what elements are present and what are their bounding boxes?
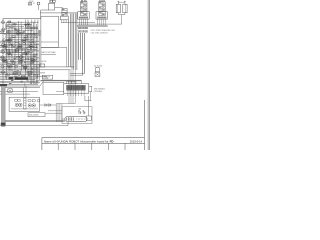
resistor R16 bbox=[13, 51, 16, 53]
transistor QK9 bbox=[19, 59, 23, 63]
wire pair A upper bbox=[41, 79, 82, 81]
connector CN7 pill bbox=[65, 117, 87, 122]
connector CN1 pin row bbox=[77, 27, 80, 29]
wire W6 bbox=[4, 33, 36, 35]
resistor R15 bbox=[7, 49, 10, 51]
resistor R20 bbox=[26, 58, 29, 60]
wire cross rail bbox=[56, 103, 75, 105]
wire pair A lower bbox=[36, 80, 82, 82]
T3 pin wires bbox=[61, 20, 63, 23]
wire W14 bbox=[0, 47, 38, 49]
wire tab stem down bbox=[89, 92, 91, 101]
divider line under BAT bbox=[41, 54, 56, 56]
wire W21 bbox=[0, 59, 37, 61]
resistor R29 bbox=[12, 73, 15, 75]
resistor R31 bbox=[30, 62, 33, 64]
relay block K3 dark belt bbox=[9, 77, 14, 79]
transistor QK4 bbox=[18, 45, 22, 49]
wire W18 bbox=[5, 53, 38, 55]
wire W33 bbox=[0, 79, 35, 81]
svg-text:MCCB: MCCB bbox=[41, 61, 47, 63]
resistor R17 bbox=[23, 53, 26, 55]
connector CN10 tabs bbox=[50, 0, 52, 2]
wire W20 bbox=[0, 57, 39, 59]
wire W17 bbox=[0, 52, 33, 54]
connector CN2 pin row bbox=[77, 31, 80, 33]
title block frame bbox=[42, 137, 145, 139]
wire cross lower 2 bbox=[0, 93, 30, 95]
wire W29 bbox=[0, 72, 45, 74]
transistor Q12 bbox=[20, 56, 23, 59]
wire horizontal rail 2 bbox=[36, 69, 71, 71]
wire riser crossovers bbox=[70, 72, 85, 74]
transistor QK13 bbox=[13, 71, 17, 75]
wire rail right drop bbox=[66, 47, 68, 67]
connector tab right of U1 bbox=[89, 86, 92, 91]
wire V1 bbox=[8, 20, 10, 60]
transistor QK6 bbox=[7, 51, 11, 55]
connector CN7 pins bbox=[66, 117, 68, 120]
transistor Q14 bbox=[7, 73, 10, 76]
resistor R26 bbox=[9, 69, 12, 71]
transistor Q5 bbox=[1, 44, 4, 47]
breaker MCCB1 box bbox=[40, 64, 45, 67]
wire W1 bbox=[7, 23, 30, 25]
relay box K1 bbox=[49, 3, 55, 10]
diode D6 bbox=[48, 104, 50, 107]
wire inner rail vertical bbox=[6, 22, 8, 80]
wire W12 bbox=[4, 43, 39, 45]
title block divider bbox=[42, 142, 145, 144]
resistor R41 bbox=[18, 100, 21, 102]
wire W34 bbox=[0, 80, 38, 82]
transistor Q4 bbox=[3, 39, 6, 42]
wire W7 bbox=[7, 35, 28, 37]
transistor QK16 bbox=[27, 23, 31, 27]
wire V13 bbox=[37, 20, 39, 85]
wire W16 bbox=[0, 50, 39, 52]
wire C1 C2 bottoms bbox=[117, 13, 119, 15]
title right border tail bbox=[143, 100, 145, 138]
transistor Q20 bbox=[15, 103, 18, 106]
wire W11 bbox=[0, 42, 36, 44]
transistor Q1 bbox=[2, 21, 5, 24]
wire from NOTE1 right bbox=[41, 46, 67, 48]
svg-text:POWER: POWER bbox=[43, 78, 48, 80]
wire W5 bbox=[7, 31, 21, 33]
transistor QK12 bbox=[23, 65, 27, 69]
wire bus under T3 bbox=[61, 22, 95, 24]
resistor R7 bbox=[12, 36, 15, 38]
connector CN5 box bbox=[95, 68, 99, 72]
wire W36 bbox=[0, 83, 38, 85]
resistor R13 bbox=[17, 46, 20, 48]
transistor QK1 bbox=[7, 39, 11, 43]
transistor Q23 bbox=[32, 104, 35, 107]
resistor R34 bbox=[34, 46, 37, 48]
wire to K1 bbox=[41, 9, 49, 11]
transistor QK8 bbox=[3, 59, 7, 63]
wire K1 to T3 bbox=[55, 7, 63, 9]
resistor R3 bbox=[10, 26, 13, 28]
wire V5 bbox=[21, 25, 23, 70]
module U1 pin wires bbox=[67, 93, 69, 96]
resistor R32 bbox=[33, 55, 36, 57]
resistor R1 bbox=[8, 21, 11, 23]
transistor Q21 bbox=[19, 103, 22, 106]
wire U1 bottom drops bbox=[84, 96, 86, 101]
wire horizontal rail 1 bbox=[36, 66, 74, 68]
resistor R6 bbox=[20, 33, 23, 35]
wire bottom return bbox=[0, 125, 68, 127]
wire W24 bbox=[0, 64, 39, 66]
wire W28 bbox=[0, 70, 40, 72]
transistor Q9 bbox=[1, 65, 4, 68]
scan margin bar bbox=[2, 86, 6, 123]
resistor R21 bbox=[11, 60, 14, 62]
wire inside brake box bbox=[11, 108, 38, 110]
box shield region bbox=[43, 82, 64, 94]
component D1 diode bbox=[37, 2, 40, 5]
wire stem down from C pair bbox=[121, 15, 123, 25]
transistor QK2 bbox=[22, 39, 26, 43]
connector CN6 box bbox=[86, 116, 91, 120]
wire W19 bbox=[0, 55, 36, 57]
wire dark bus y33 bbox=[0, 32, 39, 34]
svg-text:24V-IN: 24V-IN bbox=[29, 1, 33, 3]
transformer T1 bbox=[80, 2, 87, 16]
transformer T2 bbox=[99, 2, 106, 16]
wire diode row bbox=[40, 104, 57, 106]
scan bar dark cap bbox=[1, 123, 6, 126]
transistor Q22 bbox=[28, 104, 31, 107]
wire pair B upper bbox=[2, 85, 41, 87]
transistor Q10 bbox=[2, 71, 5, 74]
label CN strip above U1 bbox=[66, 82, 76, 84]
transistor QK3 bbox=[3, 45, 7, 49]
svg-text:JZNC-NIF01B-1: JZNC-NIF01B-1 bbox=[94, 89, 106, 91]
transistor Q2 bbox=[2, 28, 5, 31]
transistor Q6 bbox=[2, 51, 5, 54]
wire V11 bbox=[34, 20, 36, 85]
resistor R14 bbox=[27, 48, 30, 50]
resistor R30 bbox=[22, 75, 25, 77]
wire V6 bbox=[24, 20, 26, 79]
wire diagonal join bbox=[40, 81, 44, 86]
transformer T3 body box bbox=[60, 16, 68, 20]
page edge shadow bbox=[147, 0, 150, 150]
wire V12 bbox=[35, 24, 37, 84]
wire bus risers to CN rows bbox=[78, 33, 80, 60]
resistor R10 bbox=[15, 41, 18, 43]
wire pair B lower bbox=[2, 87, 41, 89]
resistor R8 bbox=[24, 36, 27, 38]
wire from D1 down bbox=[38, 5, 40, 10]
wire inner rail bbox=[7, 21, 39, 23]
transistor Q7 bbox=[1, 56, 4, 59]
component K0 small fuse bbox=[28, 3, 32, 5]
box NOTE1 options table bbox=[41, 16, 59, 47]
wire V7 bbox=[27, 20, 29, 83]
svg-text:BAT DC12V 24AH: BAT DC12V 24AH bbox=[42, 51, 57, 54]
resistor R40 bbox=[15, 100, 18, 102]
transformer T3 winding stack bbox=[62, 9, 67, 17]
wire W32 bbox=[0, 77, 38, 79]
resistor R22 bbox=[19, 62, 22, 64]
wire feeds into enclosure bbox=[48, 110, 62, 112]
wire W4 bbox=[7, 29, 33, 31]
wire W31 bbox=[0, 75, 47, 77]
wire vertical node A bbox=[40, 10, 42, 19]
wire into U1 bbox=[56, 91, 64, 93]
wire left rail vertical bbox=[2, 19, 4, 85]
wire bundle drops bbox=[68, 70, 70, 104]
resistor R25 bbox=[24, 67, 27, 69]
wire W26 bbox=[0, 67, 39, 69]
transistor Q3 bbox=[1, 30, 4, 33]
resistor R42 bbox=[28, 100, 31, 102]
short vertical stubs in mesh bbox=[25, 47, 27, 49]
svg-text:FD: FD bbox=[110, 140, 114, 144]
wire W35 bbox=[0, 82, 40, 84]
resistor R33 bbox=[30, 41, 33, 43]
wire W27 bbox=[0, 69, 36, 71]
wire V4 bbox=[18, 21, 20, 64]
wire main bus to transformer bbox=[40, 12, 78, 14]
resistor R28 bbox=[27, 71, 30, 73]
transistor Q15 bbox=[18, 73, 21, 76]
tiny connector cluster rows bbox=[27, 27, 28, 29]
wire brake stems up bbox=[23, 88, 25, 98]
regulator VR1 centre element bbox=[24, 98, 26, 109]
wire bundle vertical risers bbox=[67, 20, 69, 67]
box U3 bbox=[16, 48, 25, 52]
module U1 pin stubs bbox=[67, 90, 69, 93]
wire long top rail bbox=[3, 18, 41, 20]
transistor Q8 bbox=[2, 59, 5, 62]
wire W15 bbox=[2, 48, 36, 50]
svg-text:JZNC-XIU01B: JZNC-XIU01B bbox=[29, 115, 39, 117]
transistor QK5 bbox=[29, 45, 33, 49]
svg-text:(CPS-420F): (CPS-420F) bbox=[94, 91, 103, 93]
wire bar under U1 bbox=[85, 100, 92, 102]
svg-text:F1: F1 bbox=[33, 3, 35, 5]
capacitor C2 box bbox=[123, 4, 127, 12]
diode D5 bbox=[45, 104, 47, 107]
wire W8 bbox=[7, 37, 38, 39]
resistor R24 bbox=[15, 66, 18, 68]
divider in NOTE1 bbox=[41, 41, 59, 43]
filled component blobs bbox=[6, 25, 8, 26]
resistor R4 bbox=[16, 29, 19, 31]
wire V10 bbox=[32, 22, 34, 84]
resistor R19 bbox=[17, 57, 20, 59]
wire V2 bbox=[11, 22, 13, 68]
label box NOTE2 bbox=[42, 75, 53, 79]
transistor QK7 bbox=[25, 51, 29, 55]
relay block K2 dark belt bbox=[15, 77, 28, 79]
resistor R12 bbox=[10, 44, 13, 46]
resistor R27 bbox=[18, 71, 21, 73]
svg-text:2019-5-14: 2019-5-14 bbox=[130, 139, 143, 143]
transistor Q11 bbox=[16, 49, 19, 52]
resistor R43 bbox=[32, 100, 35, 102]
resistor R18 bbox=[8, 55, 11, 57]
battery symbols above connector bbox=[78, 110, 80, 114]
wire bottom pair lower bbox=[5, 121, 65, 123]
resistor R2 bbox=[13, 23, 16, 25]
wire V8 bbox=[29, 24, 31, 84]
transistor QK11 bbox=[8, 65, 12, 69]
module U1 terminal strip box bbox=[64, 84, 89, 93]
wire NOTE1 left edge down bbox=[40, 47, 42, 67]
wire to T2 bbox=[78, 23, 122, 25]
wire linking C1 C2 tops bbox=[118, 1, 125, 3]
wire W25 bbox=[4, 65, 37, 67]
svg-text:CN2 JZNC-XRK01B: CN2 JZNC-XRK01B bbox=[91, 32, 109, 34]
box connector enclosure bbox=[62, 107, 92, 124]
transistor QK10 bbox=[31, 59, 35, 63]
bus end blob bbox=[0, 84, 7, 86]
terminal ticks on NOTE1 left edge bbox=[39, 30, 41, 32]
small box X1 bbox=[8, 89, 12, 92]
wire W2 bbox=[7, 25, 24, 27]
wire risers to connector bbox=[55, 104, 57, 122]
svg-text:Name of HYUNDAI ROBOT Infocont: Name of HYUNDAI ROBOT Infocontroller boa… bbox=[44, 139, 109, 143]
wire W13 bbox=[0, 45, 31, 47]
wire W10 bbox=[0, 40, 39, 42]
resistor R23 bbox=[7, 64, 10, 66]
transistor Q13 bbox=[12, 61, 15, 64]
wire W9 bbox=[6, 39, 34, 41]
title block cell dividers bbox=[57, 143, 59, 150]
transistor Q30 bbox=[37, 99, 40, 102]
wire V3 bbox=[14, 24, 16, 72]
filter FLT1 box bbox=[95, 73, 100, 77]
transistor QK14 bbox=[28, 71, 32, 75]
wire bus h2 bbox=[77, 25, 108, 27]
wire W23 bbox=[0, 62, 34, 64]
box brake unit bbox=[9, 97, 39, 111]
junction dots bbox=[10, 43, 13, 46]
resistor R11 bbox=[23, 43, 26, 45]
wire W3 bbox=[5, 27, 38, 29]
wire U1 stems up bbox=[68, 81, 70, 84]
wire cross lower 1 bbox=[0, 91, 38, 93]
wire V9 bbox=[31, 20, 33, 85]
transistor QK15 bbox=[16, 31, 20, 35]
wire V14 bbox=[38, 30, 40, 80]
wire into CN7 bbox=[62, 118, 65, 120]
wire stem to CN6 bbox=[87, 101, 89, 116]
wire W30 bbox=[0, 74, 40, 76]
capacitor C1 box bbox=[116, 4, 120, 12]
wire bus h1 bbox=[77, 24, 108, 26]
resistor R9 bbox=[8, 39, 11, 41]
module U1 terminal cells bbox=[66, 85, 69, 90]
resistor R5 bbox=[7, 31, 10, 33]
wire C1 C2 top stems bbox=[117, 1, 119, 4]
wire W22 bbox=[2, 61, 39, 63]
wire bottom pair upper bbox=[5, 119, 65, 121]
note box NOTE3 bbox=[28, 113, 45, 117]
